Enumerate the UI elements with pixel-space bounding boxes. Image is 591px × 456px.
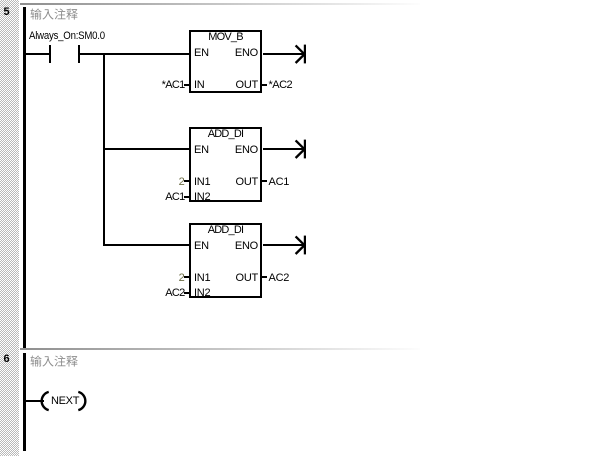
left power rail network 6 — [23, 353, 26, 451]
ADD_DI 2 pin EN label — [194, 241, 209, 252]
ADD_DI 1 pin EN label — [194, 145, 209, 156]
ADD_DI 2 IN1 pin tick — [184, 276, 189, 278]
ADD_DI 2 OUT operand AC2 — [269, 273, 290, 284]
ADD_DI 2 IN1 operand 2 — [135, 273, 185, 284]
branch wire to ADD_DI 1 EN — [103, 148, 190, 150]
open-line arrow at ADD_DI 2 ENO — [294, 235, 308, 256]
ADD_DI 1 IN1 pin tick — [184, 180, 189, 182]
NEXT coil parentheses — [40, 390, 88, 412]
ADD_DI 1 pin OUT label — [189, 177, 258, 188]
ADD_DI 1 IN2 operand AC1 — [135, 192, 185, 203]
MOV_B title — [189, 32, 262, 43]
ADD_DI 1 IN1 operand 2 — [135, 177, 185, 188]
ADD_DI 1 OUT operand AC1 — [269, 177, 290, 188]
MOV_B IN operand *AC1 — [135, 80, 185, 91]
MOV_B pin ENO label — [189, 48, 258, 59]
wire ADD_DI 2 ENO to arrow — [263, 244, 304, 246]
MOV_B pin IN label — [194, 80, 205, 91]
network 6 separator line — [20, 348, 420, 350]
ADD_DI 2 pin IN1 label — [194, 273, 210, 284]
ADD_DI 1 IN2 pin tick — [184, 196, 189, 198]
ADD_DI 2 pin OUT label — [189, 273, 258, 284]
ADD_DI 1 function block box — [189, 127, 262, 202]
MOV_B OUT operand *AC2 — [269, 80, 293, 91]
ADD_DI 2 OUT pin tick — [262, 276, 267, 278]
MOV_B pin EN label — [194, 48, 209, 59]
network 6 comment 输入注释 — [0, 347, 90, 371]
ADD_DI 1 pin IN2 label — [194, 192, 210, 203]
ADD_DI 2 title — [189, 225, 262, 236]
contact left bar — [49, 45, 51, 63]
ADD_DI 1 pin ENO label — [189, 145, 258, 156]
contact I1 label Always_On:SM0.0 — [29, 31, 105, 42]
ADD_DI 1 pin IN1 label — [194, 177, 210, 188]
network 5 separator line — [20, 3, 420, 5]
ADD_DI 2 IN2 pin tick — [184, 292, 189, 294]
MOV_B pin OUT label — [189, 80, 258, 91]
contact right bar — [78, 45, 80, 63]
MOV_B OUT pin tick — [262, 84, 267, 86]
MOV_B function block box — [189, 30, 262, 93]
network number gutter column — [0, 0, 19, 456]
ADD_DI 2 pin ENO label — [189, 241, 258, 252]
open-line arrow at MOV_B ENO — [294, 44, 308, 65]
ADD_DI 2 IN2 operand AC2 — [135, 288, 185, 299]
left power rail network 5 — [23, 7, 26, 348]
open-line arrow at ADD_DI 1 ENO — [294, 139, 308, 160]
network 5 number label — [4, 7, 10, 18]
network 5 comment 输入注释 — [0, 0, 90, 24]
MOV_B IN pin tick — [184, 84, 189, 86]
wire ADD_DI 1 ENO to arrow — [263, 148, 304, 150]
wire MOV_B ENO to arrow — [263, 53, 304, 55]
branch wire to ADD_DI 2 EN — [103, 244, 190, 246]
branch vertical wire — [103, 53, 105, 246]
ADD_DI 2 pin IN2 label — [194, 288, 210, 299]
network 6 number label — [4, 354, 10, 365]
wire rail to contact — [25, 53, 49, 55]
NEXT coil text — [51, 396, 79, 407]
ADD_DI 2 function block box — [189, 223, 262, 298]
wire rail to NEXT coil — [25, 400, 44, 402]
ADD_DI 1 OUT pin tick — [262, 180, 267, 182]
wire contact to MOV_B EN — [80, 53, 190, 55]
ADD_DI 1 title — [189, 129, 262, 140]
